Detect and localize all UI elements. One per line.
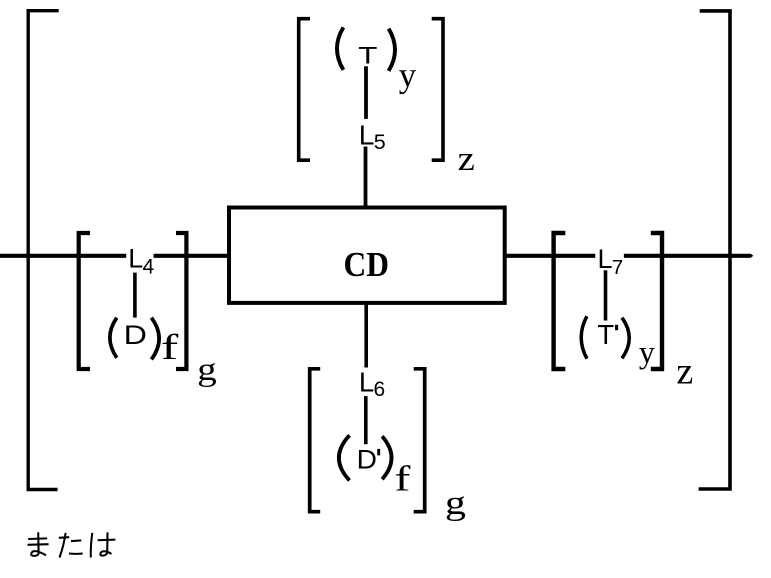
svg-text:D: D bbox=[124, 320, 147, 350]
svg-text:g: g bbox=[445, 485, 466, 522]
svg-text:7: 7 bbox=[612, 257, 623, 279]
svg-text:g: g bbox=[197, 352, 217, 388]
svg-text:CD: CD bbox=[344, 245, 390, 284]
svg-text:f: f bbox=[394, 458, 410, 498]
svg-text:L: L bbox=[598, 244, 613, 274]
svg-text:z: z bbox=[458, 139, 475, 178]
svg-text:D: D bbox=[357, 445, 377, 475]
svg-text:T: T bbox=[358, 43, 377, 70]
svg-text:6: 6 bbox=[374, 378, 386, 401]
svg-text:5: 5 bbox=[374, 130, 386, 154]
svg-text:T: T bbox=[597, 319, 614, 350]
svg-text:L: L bbox=[359, 119, 375, 150]
svg-text:y: y bbox=[399, 56, 417, 95]
svg-text:f: f bbox=[161, 327, 178, 367]
svg-text:y: y bbox=[639, 333, 655, 369]
svg-text:L: L bbox=[128, 244, 143, 274]
svg-text:z: z bbox=[676, 351, 693, 393]
svg-text:4: 4 bbox=[143, 256, 155, 279]
svg-text:L: L bbox=[359, 367, 374, 398]
